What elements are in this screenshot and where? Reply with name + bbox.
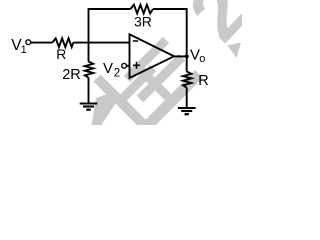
svg-text:1: 1 bbox=[21, 44, 27, 56]
svg-text:o: o bbox=[199, 53, 205, 65]
svg-text:R: R bbox=[56, 46, 66, 62]
svg-text:V: V bbox=[103, 60, 113, 77]
svg-text:3R: 3R bbox=[134, 14, 152, 30]
svg-text:2: 2 bbox=[114, 68, 120, 80]
svg-text:R: R bbox=[198, 73, 208, 89]
svg-text:2R: 2R bbox=[62, 67, 81, 83]
